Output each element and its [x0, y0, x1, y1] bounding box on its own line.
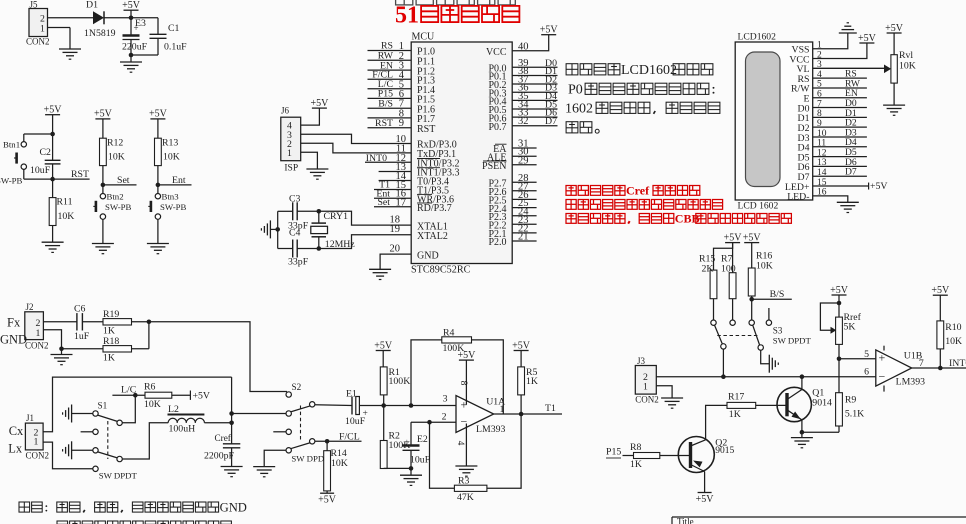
- resistor R7 100: [729, 273, 736, 299]
- node Set: [101, 183, 106, 188]
- svg-text:10K: 10K: [331, 458, 348, 469]
- wire: [131, 54, 158, 56]
- +5V power: [514, 350, 529, 352]
- connector J2 CON2: [25, 312, 44, 340]
- svg-text:10uF: 10uF: [345, 416, 366, 427]
- resistor R10 10K: [937, 321, 944, 349]
- text note Cref red line2: [566, 200, 576, 210]
- svg-text:Btn1: Btn1: [3, 140, 20, 150]
- svg-text:51: 51: [395, 3, 419, 29]
- wire R17 to Q2 collector: [706, 405, 727, 439]
- svg-text:R9: R9: [845, 395, 857, 406]
- node: [229, 421, 234, 426]
- svg-text:1K: 1K: [103, 353, 115, 364]
- ground: [120, 61, 142, 63]
- push button Btn2 SW-PB: [100, 194, 105, 199]
- svg-text:E3: E3: [135, 18, 146, 29]
- node: [59, 347, 64, 352]
- resistor R4 100K: [411, 340, 442, 406]
- wire to R9: [838, 359, 840, 393]
- wire J6 pin4: [301, 108, 320, 125]
- svg-text:5.1K: 5.1K: [845, 409, 864, 420]
- ground: [768, 355, 770, 373]
- svg-text:1K: 1K: [630, 459, 642, 470]
- svg-text:220uF: 220uF: [122, 42, 148, 53]
- node: [409, 466, 414, 471]
- svg-text:XTAL2: XTAL2: [417, 231, 448, 242]
- svg-text:1602: 1602: [565, 102, 593, 117]
- svg-text:C2: C2: [40, 147, 52, 158]
- ground: [400, 474, 422, 476]
- wire J1 pin1 to switch: [43, 442, 93, 469]
- +5V power: [124, 9, 139, 11]
- connector J5: [29, 9, 48, 37]
- svg-text:1: 1: [34, 437, 39, 448]
- node: [409, 403, 414, 408]
- svg-text:0.1uF: 0.1uF: [164, 42, 187, 53]
- svg-text:9014: 9014: [812, 398, 832, 409]
- svg-text:D1: D1: [86, 0, 98, 11]
- ground: [92, 243, 114, 245]
- svg-text:MCU: MCU: [412, 32, 436, 43]
- svg-text:2K: 2K: [702, 264, 714, 275]
- transistor Q2 9015: [678, 437, 714, 473]
- svg-text:S2: S2: [292, 382, 302, 392]
- ground under LED-: [837, 201, 859, 203]
- connector J1 CON2: [25, 423, 43, 450]
- svg-text:+5V: +5V: [512, 340, 531, 351]
- push button Btn1 SW-PB: [21, 142, 26, 147]
- svg-text:SW DPDT: SW DPDT: [773, 336, 812, 346]
- svg-text:+5V: +5V: [885, 23, 904, 34]
- svg-text:D7: D7: [845, 167, 857, 178]
- +5V power: [744, 242, 759, 244]
- node: [381, 403, 386, 408]
- capacitor E1 10uF: [351, 397, 353, 415]
- svg-text:1: 1: [36, 328, 41, 339]
- svg-text:2200pF: 2200pF: [204, 451, 234, 462]
- connector J6 ISP: [281, 117, 301, 161]
- svg-text:+5V: +5V: [44, 105, 63, 116]
- node B/S: [749, 297, 754, 302]
- svg-text:SW-PB: SW-PB: [0, 176, 23, 186]
- svg-text:10K: 10K: [108, 152, 125, 163]
- svg-text:CON2: CON2: [26, 37, 50, 47]
- svg-text:+5V: +5V: [149, 109, 168, 120]
- svg-text:100: 100: [721, 264, 736, 275]
- resistor R16 10K: [748, 268, 755, 296]
- ground: [883, 104, 905, 106]
- svg-text:R17: R17: [728, 392, 744, 403]
- capacitor C1 0.1uF: [157, 18, 159, 35]
- svg-text:Lx: Lx: [8, 442, 23, 456]
- svg-text:D7: D7: [545, 116, 557, 127]
- wire bus to U1B pin6: [656, 376, 876, 378]
- svg-text:P2.0: P2.0: [488, 237, 506, 248]
- svg-text:100uH: 100uH: [169, 424, 196, 435]
- wire: [231, 377, 233, 444]
- svg-text:10K: 10K: [144, 399, 161, 410]
- svg-text:J5: J5: [30, 0, 39, 10]
- wire XTAL1: [319, 211, 411, 225]
- svg-text:+5V: +5V: [457, 350, 476, 361]
- capacitor Cref 2200pF: [223, 443, 240, 445]
- svg-text:1uF: 1uF: [74, 331, 90, 342]
- node: [275, 227, 280, 232]
- wire: [277, 211, 279, 248]
- svg-text:CON2: CON2: [635, 395, 659, 405]
- svg-text:S3: S3: [773, 326, 783, 336]
- svg-text:GND: GND: [220, 500, 247, 514]
- resistor R19 1K: [103, 319, 132, 325]
- svg-text:1: 1: [643, 382, 648, 393]
- svg-text:PSEN: PSEN: [482, 161, 506, 172]
- svg-text:+5V: +5V: [374, 340, 393, 351]
- resistor R1 100K: [380, 367, 387, 395]
- node: [837, 357, 842, 362]
- svg-text:1N5819: 1N5819: [84, 28, 116, 39]
- text title line1 (cropped): [396, 0, 413, 5]
- svg-text:9015: 9015: [715, 446, 734, 456]
- push button Btn3 SW-PB: [155, 194, 160, 199]
- capacitor E3 220uF: [130, 18, 132, 35]
- svg-text:ISP: ISP: [284, 164, 298, 174]
- text note LCD pullup line1: [566, 64, 578, 75]
- +5V power: [376, 350, 391, 352]
- svg-text:STC89C52RC: STC89C52RC: [411, 265, 471, 276]
- svg-text:19: 19: [390, 224, 401, 235]
- svg-text:P15: P15: [606, 447, 621, 458]
- svg-text:Rvl: Rvl: [899, 50, 913, 61]
- resistor R6 10K: [145, 392, 172, 398]
- capacitor C4 33pF: [278, 248, 293, 250]
- svg-text:F/CL: F/CL: [339, 432, 360, 443]
- svg-text:47K: 47K: [457, 492, 474, 503]
- resistor R9 5.1K: [836, 393, 843, 426]
- node RST: [50, 177, 55, 182]
- svg-text:+5V: +5V: [94, 109, 113, 120]
- svg-text:10uF: 10uF: [410, 455, 431, 466]
- svg-text:J6: J6: [281, 106, 290, 116]
- svg-text:+5V: +5V: [122, 0, 141, 11]
- node: [317, 209, 322, 214]
- switch S3 SW DPDT: [711, 320, 716, 325]
- wire: [802, 431, 839, 433]
- wire J6 pin3 to RxD: [301, 134, 412, 143]
- wire: [48, 27, 71, 29]
- svg-text:P0: P0: [568, 83, 583, 98]
- svg-text:RD/P3.7: RD/P3.7: [417, 203, 452, 214]
- connector J3 CON2: [635, 366, 656, 395]
- wire emitter: [801, 420, 803, 432]
- svg-text:R13: R13: [162, 138, 178, 149]
- diode D1 1N5819: [93, 11, 104, 24]
- svg-text:+5V: +5V: [931, 285, 950, 296]
- svg-text:Ent: Ent: [172, 175, 186, 186]
- net INT0 output: [912, 367, 966, 369]
- potentiometer Rvl 10K: [887, 32, 902, 34]
- svg-text:LED-: LED-: [787, 192, 809, 203]
- resistor R14 10K: [325, 439, 330, 444]
- svg-text:SW-PB: SW-PB: [160, 202, 187, 212]
- wire to S2: [149, 322, 287, 392]
- svg-text:VCC: VCC: [486, 47, 507, 58]
- +5V power: [320, 492, 334, 494]
- text bottom note line1: [19, 502, 30, 512]
- svg-text:T1: T1: [545, 403, 556, 414]
- wire: [104, 17, 158, 19]
- node: [427, 420, 432, 425]
- svg-text:C3: C3: [289, 194, 301, 205]
- ground: [269, 220, 271, 238]
- capacitor C3 33pF: [278, 210, 293, 212]
- +5V power: [725, 242, 740, 244]
- net F/CL: [315, 440, 362, 442]
- wire: [315, 404, 352, 407]
- LCD screen: [746, 52, 781, 187]
- svg-text:R19: R19: [103, 309, 119, 320]
- text bottom note line2 (cropped): [57, 521, 68, 524]
- svg-text:C4: C4: [289, 228, 301, 239]
- svg-text:CON2: CON2: [26, 451, 50, 461]
- svg-text:S1: S1: [98, 401, 108, 411]
- svg-text:+5V: +5V: [870, 181, 888, 192]
- ground: [42, 241, 64, 243]
- svg-text:LCD1602: LCD1602: [621, 63, 677, 78]
- svg-text:+5V: +5V: [540, 25, 559, 36]
- svg-text:LCD1602: LCD1602: [738, 32, 777, 43]
- ground above VSS: [839, 32, 857, 34]
- svg-text:+5V: +5V: [318, 495, 337, 506]
- svg-text:1K: 1K: [526, 376, 538, 387]
- svg-text:J3: J3: [637, 356, 646, 366]
- svg-text:4: 4: [455, 441, 465, 446]
- wire inverting input: [411, 421, 456, 423]
- svg-text:R3: R3: [458, 476, 470, 487]
- svg-text:R11: R11: [57, 197, 73, 208]
- svg-text:+5V: +5V: [310, 98, 329, 109]
- svg-text:R8: R8: [630, 442, 642, 453]
- svg-text:LM393: LM393: [896, 376, 925, 387]
- ground: [51, 354, 73, 356]
- title block: [672, 516, 966, 518]
- svg-text:1: 1: [40, 24, 45, 35]
- resistor R5 1K: [518, 367, 525, 395]
- svg-text:100K: 100K: [389, 376, 411, 387]
- ground: [369, 268, 391, 270]
- node: [229, 411, 234, 416]
- svg-text:10K: 10K: [58, 211, 75, 222]
- node Ent: [156, 183, 161, 188]
- svg-text:Title: Title: [677, 517, 694, 524]
- wire: [264, 450, 286, 466]
- U1A power pin 8: [465, 360, 467, 404]
- ground: [791, 437, 813, 439]
- wire J3 pin1: [656, 386, 672, 398]
- text note Cref red line1: [566, 186, 576, 196]
- resistor R11 10K: [52, 179, 54, 198]
- node: [147, 320, 152, 325]
- svg-text:E2: E2: [417, 434, 428, 445]
- svg-text:5: 5: [864, 349, 869, 360]
- svg-text:R6: R6: [144, 382, 156, 393]
- wire XTAL2: [319, 235, 411, 249]
- resistor R17 1K: [727, 402, 756, 408]
- wire: [43, 321, 77, 323]
- svg-text:3: 3: [443, 394, 448, 405]
- svg-text:R18: R18: [103, 336, 119, 347]
- svg-text:P0.7: P0.7: [488, 122, 506, 133]
- ground: [661, 397, 683, 399]
- svg-text:2: 2: [442, 412, 447, 423]
- svg-text:Cref: Cref: [215, 433, 232, 443]
- svg-text:Cref: Cref: [626, 183, 650, 197]
- resistor R13 10K: [155, 138, 162, 165]
- svg-text:1K: 1K: [103, 326, 115, 337]
- svg-text:RST: RST: [417, 124, 435, 135]
- resistor R18 1K: [62, 348, 104, 350]
- MCU U1 STC89C52RC: [411, 42, 512, 264]
- svg-text:B/S: B/S: [770, 289, 785, 300]
- svg-text:GND: GND: [417, 250, 439, 261]
- svg-text:R4: R4: [443, 328, 455, 339]
- inductor L2 100uH: [122, 423, 168, 459]
- resistor R15 2K: [713, 270, 715, 320]
- svg-text:INT0: INT0: [366, 153, 387, 164]
- capacitor C2 10uF: [52, 134, 54, 160]
- wire pin5: [839, 358, 876, 360]
- +5V power: [95, 118, 110, 120]
- svg-text:1: 1: [500, 404, 505, 415]
- svg-text:B/S: B/S: [378, 98, 393, 109]
- +5V power: [933, 294, 948, 296]
- svg-text:10K: 10K: [945, 336, 962, 347]
- svg-text:C6: C6: [74, 304, 86, 315]
- resistor R2 100K: [383, 406, 385, 441]
- ground: [253, 466, 275, 468]
- svg-text:10K: 10K: [756, 261, 773, 272]
- capacitor C6 1uF: [76, 313, 78, 330]
- net T1 output: [494, 413, 562, 415]
- LCD1602 module: [735, 42, 813, 200]
- potentiometer Rref 5K: [832, 294, 847, 296]
- svg-text:INT0: INT0: [949, 358, 966, 369]
- op-amp U1A LM393: [456, 396, 494, 433]
- svg-text:−: −: [879, 370, 886, 384]
- svg-text:+5V: +5V: [830, 285, 849, 296]
- svg-text:SW-PB: SW-PB: [105, 202, 132, 212]
- node: [317, 246, 322, 251]
- svg-text:L/C: L/C: [121, 385, 136, 396]
- capacitor E2 10uF: [410, 422, 412, 445]
- svg-text:5K: 5K: [844, 322, 856, 333]
- text note LCD pullup line4: [566, 122, 578, 133]
- resistor R12 10K: [100, 138, 107, 165]
- svg-text:Set: Set: [377, 197, 390, 208]
- svg-text:+5V: +5V: [193, 391, 211, 402]
- net L/C: [122, 395, 135, 423]
- svg-text:J1: J1: [26, 413, 34, 423]
- svg-text:+5V: +5V: [858, 33, 877, 44]
- svg-text:+5V: +5V: [724, 232, 743, 243]
- text note Cref red line3: [566, 214, 576, 224]
- resistor R3 47K: [430, 422, 455, 488]
- svg-text:33pF: 33pF: [288, 257, 309, 268]
- svg-text:RST: RST: [71, 169, 89, 180]
- wire: [48, 17, 94, 19]
- svg-text:L2: L2: [168, 404, 179, 415]
- svg-text:LM393: LM393: [476, 424, 505, 435]
- svg-text:LCD 1602: LCD 1602: [738, 201, 779, 212]
- svg-text:8: 8: [458, 381, 468, 386]
- svg-text:6: 6: [864, 367, 869, 378]
- svg-text:10K: 10K: [163, 152, 180, 163]
- +5V power: [698, 492, 712, 494]
- svg-text:Btn2: Btn2: [107, 192, 124, 202]
- svg-text:J2: J2: [26, 302, 34, 312]
- wire J2 pin1: [43, 330, 61, 349]
- wire J6 pin2 to TxD: [301, 143, 412, 153]
- svg-text:1K: 1K: [729, 409, 741, 420]
- transistor Q1 9014: [777, 387, 811, 421]
- wire J6 pin1: [301, 152, 318, 169]
- svg-text:Fx: Fx: [7, 316, 21, 330]
- svg-text:SW DPDT: SW DPDT: [99, 471, 138, 481]
- svg-text:R10: R10: [945, 322, 961, 333]
- svg-text:+: +: [405, 437, 410, 447]
- +5V power: [312, 107, 327, 109]
- svg-text:E1: E1: [346, 389, 357, 400]
- svg-text:10uF: 10uF: [30, 165, 51, 176]
- svg-text:CON2: CON2: [25, 341, 49, 351]
- +5V power VCC: [859, 42, 874, 44]
- +5V power: [541, 34, 556, 36]
- wire J1 pin2 up to top rail: [43, 377, 232, 432]
- ground: [455, 465, 477, 467]
- svg-text:10K: 10K: [899, 61, 916, 72]
- svg-text:+: +: [879, 351, 886, 365]
- svg-text:20: 20: [390, 244, 401, 255]
- wire: [384, 405, 456, 407]
- U1A power pin 4: [465, 424, 467, 467]
- node: [50, 132, 55, 137]
- ground: [221, 466, 243, 468]
- +5V power: [45, 114, 60, 116]
- wire emitter to +5V: [704, 472, 706, 493]
- +5V power: [150, 118, 165, 120]
- svg-text:+5V: +5V: [743, 232, 762, 243]
- svg-text:GND: GND: [0, 333, 27, 347]
- ground: [306, 168, 328, 170]
- svg-text:C1: C1: [168, 23, 180, 34]
- ground: [147, 243, 169, 245]
- op-amp U1B LM393: [876, 350, 912, 386]
- wire: [722, 349, 724, 377]
- svg-text:CRY1: CRY1: [324, 211, 349, 222]
- svg-text:7: 7: [919, 358, 924, 369]
- svg-text:RST: RST: [375, 118, 393, 129]
- svg-text:Cx: Cx: [9, 424, 24, 438]
- svg-text:+5V: +5V: [696, 494, 715, 505]
- svg-text:Set: Set: [117, 175, 130, 186]
- svg-text:R12: R12: [107, 138, 123, 149]
- crystal CRY1 12MHz: [318, 211, 320, 223]
- wire: [761, 350, 770, 363]
- svg-text:1: 1: [287, 148, 292, 159]
- svg-text:Btn3: Btn3: [162, 192, 180, 202]
- ground: [59, 48, 81, 50]
- wire collector: [801, 377, 803, 390]
